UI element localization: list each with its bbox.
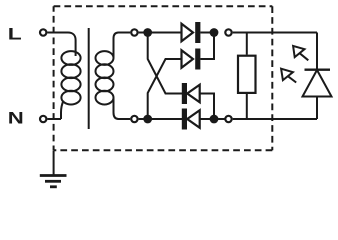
ground: [40, 151, 67, 187]
svg-text:L: L: [8, 26, 22, 44]
diode D4: [182, 109, 229, 130]
terminal (open circle) secondary bottom: [131, 116, 137, 122]
diode D3: [182, 83, 214, 119]
LED arrow 1: [293, 46, 308, 60]
terminal (open circle) secondary top: [131, 29, 137, 35]
svg-text:N: N: [8, 109, 24, 127]
LED D5: [303, 33, 332, 120]
node L terminal: [40, 29, 46, 35]
wire bottom rail to LED: [233, 118, 317, 120]
diode D2: [182, 33, 215, 70]
terminal (open circle) top-right: [225, 29, 231, 35]
wire secondary bottom to D4: [139, 118, 182, 120]
enclosure dashed box: [54, 6, 273, 150]
transformer T1 core: [88, 28, 90, 129]
diode D1: [182, 22, 215, 43]
wire top rail to LED: [233, 32, 317, 34]
wire L to primary: [48, 32, 69, 34]
transformer T1 primary winding: [61, 33, 81, 120]
transformer T1 secondary winding: [96, 33, 131, 120]
wire cross-connect A (top junction to D3): [148, 33, 182, 94]
junction node bottom-left: [143, 115, 152, 124]
junction node top-left: [143, 28, 152, 37]
junction node top-right: [210, 28, 219, 37]
junction node bottom-right: [210, 115, 219, 124]
LED arrow 2: [281, 69, 296, 83]
wire secondary top to D1: [139, 32, 182, 34]
wire cross-connect B (bottom junction to D2): [148, 59, 182, 119]
wire N to primary: [48, 118, 62, 120]
node N terminal: [40, 116, 46, 122]
resistor R1: [238, 33, 256, 120]
terminal (open circle) bottom-right: [225, 116, 231, 122]
